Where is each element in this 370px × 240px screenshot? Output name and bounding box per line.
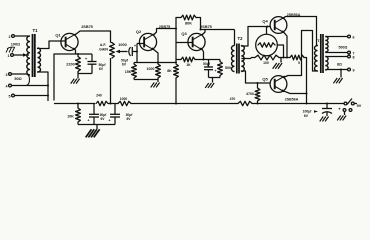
input terminal 5 — [9, 94, 15, 98]
capacitor 30uF second — [108, 104, 120, 125]
svg-text:Q3: Q3 — [181, 31, 187, 36]
input terminal 1 — [8, 54, 14, 58]
wire terminal1 with tap arrow — [13, 53, 29, 57]
output terminal 7 — [348, 51, 355, 55]
wire terminal3 to T1 primary bottom — [11, 74, 29, 86]
svg-text:6: 6 — [353, 36, 355, 40]
transformer T3 primary winding — [315, 46, 318, 71]
svg-text:1000: 1000 — [118, 43, 126, 47]
label 50uF Q3 — [203, 62, 211, 66]
svg-text:6V: 6V — [122, 63, 127, 67]
input terminal 4 — [6, 84, 12, 88]
capacitor 50uF Q3 bypass — [204, 60, 217, 78]
label 50uF 6V coupling — [121, 59, 129, 67]
svg-text:Q4: Q4 — [262, 18, 268, 23]
svg-text:8: 8 — [353, 56, 355, 60]
resistor 1000 rail — [118, 101, 131, 105]
junction pot rail — [110, 103, 112, 105]
transformer T2 secondary winding — [241, 46, 244, 72]
label T1 — [32, 28, 38, 33]
wire T2 secondary bottom to Q5 base — [241, 71, 269, 83]
output terminal 8 — [348, 55, 355, 60]
label 100 ohm input — [11, 43, 20, 47]
transistor Q4 — [270, 17, 287, 34]
transformer T3 core — [321, 34, 323, 73]
junction node A — [47, 85, 49, 87]
wire Q3 cell bottom — [209, 77, 221, 79]
wire Q2 collector to Q3 base line — [154, 29, 176, 35]
svg-text:100Ω: 100Ω — [11, 43, 20, 47]
wire Q1 collector to volume pot — [76, 31, 111, 35]
label 500 ohm output — [339, 46, 348, 50]
wire T2 primary top — [234, 30, 236, 46]
ground 100uF — [320, 117, 329, 122]
svg-text:1: 1 — [8, 54, 10, 58]
wire terminal2 to T1 primary top — [14, 35, 29, 37]
wire T1 secondary top to Q1 base — [38, 41, 65, 49]
transistor Q5 — [270, 76, 287, 93]
transformer T2 primary winding — [232, 46, 235, 72]
transistor Q1 — [61, 33, 78, 50]
resistor 2200 Q1 emitter — [76, 54, 81, 74]
wire T1 secondary bottom down — [38, 72, 49, 101]
label 100uF 6V — [303, 110, 318, 119]
switch SW contact B — [351, 102, 357, 105]
transformer T2 core — [237, 44, 239, 74]
label 1K — [186, 63, 191, 67]
wire cap to Q2 base — [132, 44, 143, 52]
label T3 — [317, 38, 322, 43]
wire Q1 emitter to rail — [54, 50, 76, 100]
svg-text:240: 240 — [96, 94, 102, 98]
junction Q3 emitter — [203, 59, 205, 61]
wire Q4 emitter down — [284, 33, 287, 58]
transformer T1 core — [33, 34, 35, 77]
junction Q1 emitter — [77, 53, 79, 55]
svg-text:80K: 80K — [185, 22, 192, 26]
svg-text:3: 3 — [6, 73, 8, 77]
label Q4 — [262, 18, 268, 23]
svg-text:5: 5 — [9, 95, 11, 99]
label 2SB75 Q1 type — [81, 25, 93, 29]
svg-text:10K: 10K — [67, 115, 74, 119]
ground battery — [337, 116, 346, 121]
label 8K — [167, 69, 172, 73]
handwritten mic squiggle — [6, 47, 15, 52]
wire Q1 emitter line right — [76, 53, 93, 55]
wire T2 center tap to bias row — [241, 58, 251, 60]
resistor 80K feedback — [176, 15, 201, 29]
svg-text:2SB75: 2SB75 — [200, 25, 212, 29]
wire Q3 emitter down — [203, 50, 204, 60]
label 1000 Q2 emitter — [147, 67, 155, 71]
resistor 470 rail — [238, 101, 252, 105]
input terminal 2 — [9, 35, 15, 39]
input terminal 3 — [6, 73, 12, 77]
svg-text:T2: T2 — [238, 36, 244, 41]
resistor 15K — [132, 63, 137, 80]
svg-text:8Ω: 8Ω — [337, 63, 342, 67]
transformer T1 secondary winding — [38, 48, 41, 72]
transformer T3 secondary B — [325, 57, 328, 71]
bias rail wire — [134, 62, 176, 64]
wire tap 7 — [325, 52, 347, 54]
wire resistor bottoms — [134, 79, 158, 81]
thermistor bias element — [256, 27, 284, 58]
supply rail left segment — [54, 103, 95, 105]
wire T2 secondary top to Q4 base — [241, 27, 269, 47]
label T2 — [238, 36, 244, 41]
label 10K — [67, 115, 74, 119]
resistor 100 bias — [251, 55, 279, 60]
rail segment right — [252, 103, 344, 105]
resistor 500 Q3 — [218, 60, 223, 78]
ground Q1 emitter RC — [71, 74, 80, 84]
label 2200 — [66, 63, 74, 67]
svg-text:500Ω: 500Ω — [339, 46, 348, 50]
junction Q2 emitter rail — [157, 62, 159, 64]
wire pot bottom to rail — [110, 58, 112, 104]
svg-text:50Ω: 50Ω — [14, 77, 21, 81]
resistor 10K filter — [76, 104, 81, 125]
svg-text:GAIN: GAIN — [99, 48, 108, 52]
junction 4700 rail — [257, 103, 259, 105]
svg-text:470: 470 — [230, 97, 236, 101]
wire pot top — [110, 31, 112, 43]
capacitor 100uF — [322, 104, 332, 117]
svg-text:15K: 15K — [125, 70, 132, 74]
wire Q2 base down to bias rail — [136, 52, 138, 63]
label 5 bias — [298, 61, 300, 65]
label 100 bias — [263, 61, 269, 65]
svg-text:50μf: 50μf — [203, 62, 211, 66]
capacitor 30uF first — [87, 104, 99, 125]
svg-text:2: 2 — [9, 35, 11, 39]
label 9V battery — [357, 104, 362, 108]
junction thermistor top — [267, 26, 269, 28]
transformer T3 secondary A — [325, 37, 328, 53]
ground bias center — [273, 58, 282, 69]
label Q2 — [136, 29, 142, 34]
transformer T1 primary winding — [27, 36, 30, 75]
switch SW contact A — [344, 102, 347, 105]
junction bias center — [283, 57, 289, 59]
svg-text:Q2: Q2 — [136, 29, 142, 34]
junction Q3 collector 80K — [200, 29, 202, 31]
wire tap 9 — [325, 69, 347, 71]
svg-text:2SB56A: 2SB56A — [285, 98, 299, 102]
label Q5 — [262, 76, 268, 81]
resistor 1K Q3 — [176, 57, 204, 62]
wire Q3 emitter cell right — [204, 59, 221, 61]
svg-text:Q1: Q1 — [55, 33, 61, 38]
output terminal 6 — [348, 35, 355, 40]
rail segment middle — [108, 103, 118, 105]
label 50 ohm input — [14, 77, 21, 81]
resistor 8K Q3 base bias — [174, 64, 179, 104]
filter bottom wire — [78, 124, 115, 126]
wire Q3 base vertical — [175, 18, 177, 63]
label 30uF 6V first — [100, 113, 108, 121]
label 15K — [125, 70, 132, 74]
label 8 ohm output — [337, 63, 342, 67]
wire Q1 emitter RC bottom — [78, 73, 92, 75]
wire Q3 base — [176, 42, 192, 44]
wire terminal5 to T1 secondary return — [14, 95, 48, 97]
wire Q2 emitter down — [154, 50, 158, 63]
svg-text:4: 4 — [6, 85, 8, 89]
label Q1 — [55, 33, 61, 38]
ground Q3 cell — [205, 78, 214, 88]
label 500 — [225, 66, 231, 70]
output terminal 9 — [348, 68, 355, 73]
svg-text:2SB75: 2SB75 — [81, 25, 93, 29]
junction 100uF rail — [326, 103, 328, 105]
label 470 — [230, 97, 236, 101]
label 50uF 6V — [99, 63, 107, 71]
svg-text:1000: 1000 — [120, 97, 128, 101]
wire Q3 collector to T2 — [201, 30, 235, 35]
svg-text:Q5: Q5 — [262, 76, 268, 81]
junction tap9 ground — [340, 69, 342, 71]
svg-text:1K: 1K — [186, 63, 191, 67]
battery plus terminal — [338, 107, 352, 112]
wire tap 8 — [325, 56, 347, 58]
label 2SB75 Q3 type — [200, 25, 212, 29]
potentiometer 1000 AF gain — [110, 43, 115, 59]
transistor Q2 — [139, 33, 156, 50]
junction Q2 base node — [136, 51, 138, 53]
pot wiper arrow — [116, 50, 126, 53]
capacitor 50uF Q1 bypass — [85, 54, 97, 74]
junction Q3 bias rail — [175, 62, 177, 64]
svg-text:5: 5 — [298, 61, 300, 65]
junction Q5 base 4700 — [257, 82, 259, 84]
resistor 4700 Q5 base — [255, 83, 260, 104]
junction 10K rail — [77, 103, 79, 105]
svg-text:1000: 1000 — [147, 67, 155, 71]
svg-text:T1: T1 — [32, 28, 38, 33]
label 2SB56A Q5 type — [285, 98, 299, 102]
svg-text:6V: 6V — [304, 114, 309, 118]
wire Q4 collector to T3 top — [283, 17, 318, 46]
ground Q2 stage — [151, 80, 160, 88]
resistor 5 bias — [279, 55, 307, 103]
ground output winding — [333, 70, 342, 84]
label 1000 pot — [118, 43, 126, 47]
label AF GAIN — [99, 43, 108, 52]
wire tap 6 — [325, 36, 347, 38]
switch SW blade — [347, 99, 352, 105]
label 4700 — [246, 92, 254, 96]
svg-text:2200: 2200 — [66, 63, 74, 67]
ground filter — [86, 125, 100, 138]
transistor Q3 — [188, 33, 205, 50]
label Q3 — [181, 31, 187, 36]
svg-text:9V: 9V — [357, 104, 362, 108]
resistor 1000 Q2 emitter — [156, 63, 161, 80]
svg-text:6V: 6V — [99, 67, 104, 71]
svg-text:9: 9 — [353, 69, 355, 73]
junction Q3 line rail — [175, 103, 177, 105]
wire Q5 emitter to bias node — [284, 91, 307, 94]
svg-text:8K: 8K — [167, 69, 172, 73]
junction Q3 base line top — [175, 28, 177, 30]
label 30uF 6V second — [126, 113, 134, 121]
capacitor coupling to Q2 — [125, 44, 137, 56]
svg-text:T3: T3 — [317, 38, 322, 43]
svg-text:4700: 4700 — [246, 92, 254, 96]
label 2SB56A Q4 type — [287, 13, 301, 17]
wire terminal4 to node A — [11, 85, 48, 87]
svg-text:100μf: 100μf — [303, 110, 313, 114]
wire Q5 collector to T3 bottom — [284, 31, 318, 78]
junction bias rail — [306, 103, 308, 105]
label 240 rail — [96, 94, 102, 98]
resistor 240 rail — [96, 101, 108, 105]
junction node B — [47, 95, 49, 97]
svg-text:100: 100 — [263, 61, 269, 65]
svg-text:A.F.: A.F. — [100, 43, 107, 47]
svg-text:500: 500 — [225, 66, 231, 70]
rail segment long — [131, 103, 238, 105]
wire battery plus to ground — [344, 111, 346, 115]
label 2SB75 Q2 type — [159, 25, 171, 29]
label 1000 rail — [120, 97, 128, 101]
label 80K — [185, 22, 192, 26]
